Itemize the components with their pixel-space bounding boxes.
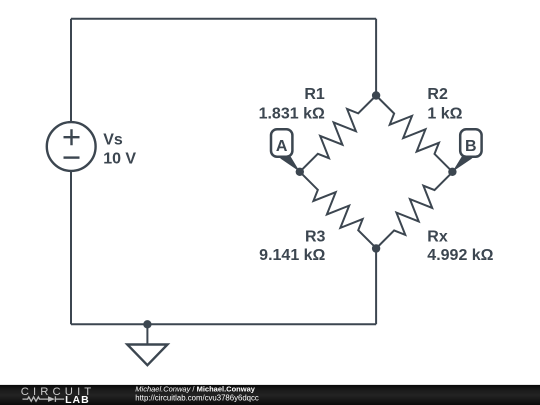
node tag A pointer (280, 156, 300, 172)
wire top horizontal (71, 18, 376, 20)
svg-text:9.141 kΩ: 9.141 kΩ (259, 247, 325, 264)
svg-text:R3: R3 (305, 229, 326, 246)
ground stub wire (146, 324, 148, 344)
Vs minus sign (64, 156, 80, 158)
wire left vertical (Vs branch) (70, 19, 72, 325)
footer logo diode bar (54, 396, 56, 402)
ground symbol triangle (127, 345, 167, 366)
footer logo diode triangle (48, 396, 55, 402)
svg-text:1.831 kΩ: 1.831 kΩ (259, 105, 325, 122)
svg-text:10 V: 10 V (103, 151, 136, 168)
node A junction dot (296, 168, 304, 176)
svg-text:1 kΩ: 1 kΩ (427, 105, 462, 122)
svg-text:A: A (276, 138, 288, 155)
node B junction dot (448, 168, 456, 176)
svg-text:Rx: Rx (427, 229, 448, 246)
node ground junction dot (143, 320, 151, 328)
wire bottom horizontal (71, 323, 376, 325)
wire right top vertical (375, 19, 377, 96)
resistor Rx (bottom node to node B) (368, 164, 460, 256)
wire right bottom vertical (375, 249, 377, 325)
resistor R3 (node A to bottom node) (292, 164, 384, 256)
Vs plus sign (64, 129, 80, 145)
voltage source Vs circle (47, 122, 96, 171)
svg-text:Michael.Conway / Michael.Conwa: Michael.Conway / Michael.Conway (135, 385, 255, 394)
svg-text:4.992 kΩ: 4.992 kΩ (427, 247, 493, 264)
svg-text:R2: R2 (427, 86, 448, 103)
node tag A box (271, 129, 292, 157)
footer logo wire with resistor and diode (23, 397, 65, 401)
resistor R2 (top node to node B) (368, 88, 460, 180)
svg-text:R1: R1 (304, 86, 325, 103)
node top junction dot (372, 91, 380, 99)
node tag B box (460, 129, 481, 157)
resistor R1 (node A to top node) (292, 88, 384, 180)
node bottom junction dot (372, 244, 380, 252)
svg-text:LAB: LAB (65, 394, 90, 405)
footer bar (0, 385, 540, 405)
svg-text:http://circuitlab.com/cvu3786y: http://circuitlab.com/cvu3786y6dqcc (135, 394, 259, 403)
svg-text:B: B (465, 138, 477, 155)
node tag B pointer (452, 156, 472, 172)
svg-text:Vs: Vs (103, 131, 123, 148)
